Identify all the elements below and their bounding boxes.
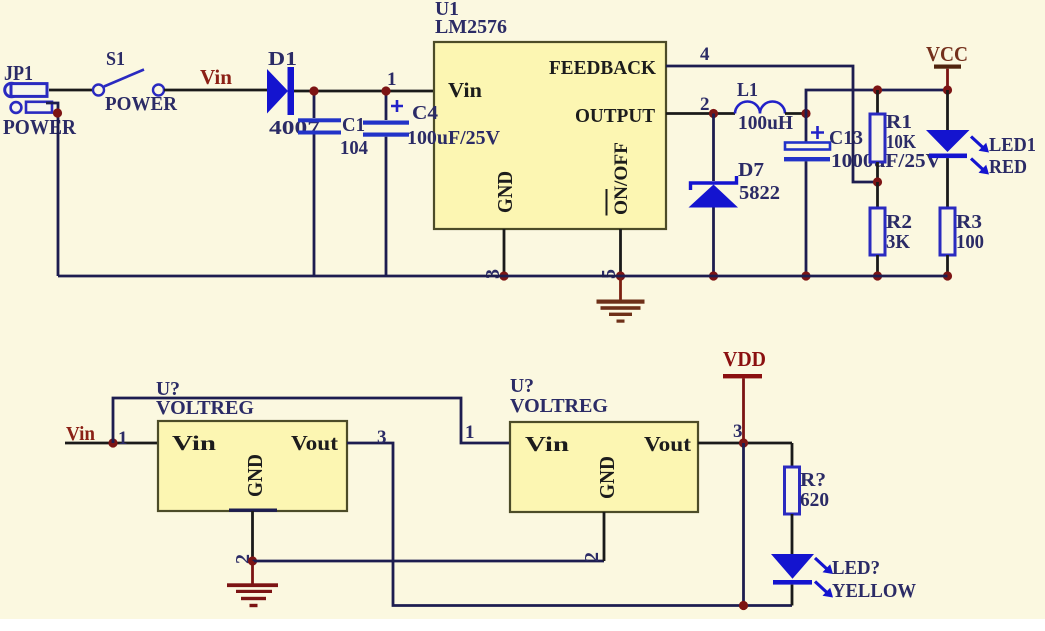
wire D1 to U1 Vin	[294, 90, 434, 93]
wire bypass loop over box1	[113, 398, 510, 443]
svg-text:POWER: POWER	[3, 115, 77, 139]
svg-text:1: 1	[387, 69, 397, 90]
svg-text:VCC: VCC	[926, 42, 968, 66]
capacitor C13 1000uF/25V	[784, 114, 942, 277]
svg-text:Vin: Vin	[172, 431, 216, 455]
regulator U? VOLTREG box2	[510, 375, 698, 512]
capacitor C4 100uF/25V	[363, 91, 501, 276]
svg-text:L1: L1	[737, 79, 758, 101]
wire box1 Vout pin 3	[347, 443, 792, 606]
svg-text:D7: D7	[738, 159, 764, 181]
svg-text:2: 2	[581, 552, 603, 562]
svg-text:OUTPUT: OUTPUT	[575, 105, 656, 127]
svg-text:JP1: JP1	[4, 61, 33, 85]
junction C13 on rail	[801, 271, 810, 280]
wire JP1 pin1 to S1	[49, 89, 93, 92]
wire S1 to D1	[164, 89, 267, 92]
wire L1 to C13 node	[785, 112, 806, 115]
junction Vin node	[108, 438, 117, 447]
regulator U? VOLTREG box1	[156, 378, 347, 512]
svg-text:VOLTREG: VOLTREG	[510, 395, 608, 417]
svg-text:1: 1	[118, 428, 128, 449]
junction R1/R2/feedback	[873, 177, 882, 186]
wire box1 GND pin 2	[251, 511, 254, 561]
junction C4 top	[381, 86, 390, 95]
svg-text:LED?: LED?	[832, 557, 880, 579]
wire GND interconnect	[253, 560, 605, 563]
LED LED1 RED	[926, 90, 1036, 208]
svg-text:LED1: LED1	[989, 134, 1036, 156]
diode D1 4007	[267, 48, 320, 139]
svg-text:C1: C1	[342, 114, 365, 136]
svg-text:2: 2	[700, 94, 710, 115]
svg-text:R2: R2	[886, 211, 912, 233]
junction D7 on rail	[709, 271, 718, 280]
svg-text:R3: R3	[956, 211, 982, 233]
svg-text:100uF/25V: 100uF/25V	[407, 127, 501, 149]
svg-text:3: 3	[377, 427, 387, 448]
diode D7 5822	[689, 114, 781, 277]
svg-text:R1: R1	[886, 111, 912, 133]
junction U1 GND on rail	[499, 271, 508, 280]
svg-text:ON/OFF: ON/OFF	[611, 142, 632, 215]
svg-text:1: 1	[465, 422, 475, 443]
svg-text:4: 4	[700, 44, 710, 65]
switch S1	[93, 48, 178, 115]
ground symbol bottom circuit	[227, 561, 278, 607]
wire OUTPUT pin 2	[666, 112, 735, 115]
svg-text:100: 100	[956, 231, 984, 253]
capacitor C1 104	[298, 91, 368, 276]
svg-text:U?: U?	[510, 375, 534, 397]
wire FEEDBACK pin 4	[666, 66, 877, 182]
wire U1 GND pin 3 to rail	[503, 229, 506, 276]
junction GND node	[248, 556, 257, 565]
svg-text:VDD: VDD	[723, 347, 766, 371]
junction VCC on rail	[943, 85, 952, 94]
junction R1 top	[873, 85, 882, 94]
wire Vin stub	[65, 442, 158, 445]
svg-text:Vout: Vout	[644, 432, 691, 456]
svg-text:VOLTREG: VOLTREG	[156, 397, 254, 419]
power VCC	[926, 42, 968, 88]
svg-text:S1: S1	[106, 48, 125, 70]
wire box2 Vout pin 3	[698, 442, 792, 445]
svg-text:104: 104	[340, 137, 368, 159]
bottom rail of top circuit	[58, 275, 948, 278]
junction C1 top	[309, 86, 318, 95]
junction ON/OFF on rail	[616, 271, 625, 280]
svg-text:RED: RED	[989, 156, 1027, 178]
LED LED? YELLOW	[771, 554, 916, 606]
op-amp U1 LM2576 box	[434, 0, 666, 229]
bottom white strip	[0, 619, 1045, 631]
svg-text:3K: 3K	[886, 231, 910, 253]
resistor R2 3K	[870, 182, 912, 276]
svg-text:LM2576: LM2576	[435, 16, 507, 38]
svg-text:Vin: Vin	[200, 65, 232, 89]
wire riser to top rail	[806, 90, 948, 114]
resistor R3 100	[940, 208, 984, 276]
inductor L1 100uH	[735, 79, 793, 134]
svg-text:C13: C13	[829, 127, 863, 149]
svg-text:100uH: 100uH	[738, 112, 793, 134]
junction at JP1 pin2	[53, 108, 62, 117]
svg-text:10K: 10K	[886, 131, 916, 153]
svg-text:GND: GND	[243, 454, 267, 497]
ground symbol below ON/OFF	[597, 276, 645, 323]
resistor R1 10K	[870, 90, 916, 182]
junction VDD on bottom rail	[739, 601, 748, 610]
power VDD	[723, 347, 766, 443]
svg-text:D1: D1	[268, 48, 297, 70]
svg-text:3: 3	[733, 421, 743, 442]
junction R3 on rail	[943, 271, 952, 280]
junction R2 on rail	[873, 271, 882, 280]
connector JP1	[3, 61, 77, 139]
svg-text:YELLOW: YELLOW	[832, 580, 916, 602]
junction OUTPUT / D7	[709, 109, 718, 118]
svg-text:R?: R?	[800, 469, 826, 491]
svg-text:Vin: Vin	[525, 432, 569, 456]
svg-text:POWER: POWER	[105, 93, 178, 115]
wire JP1 pin2 down to bottom rail	[46, 103, 58, 276]
wire box2 GND pin	[603, 512, 606, 561]
svg-text:Vin: Vin	[448, 78, 482, 102]
svg-text:620: 620	[800, 489, 829, 511]
svg-text:C4: C4	[412, 102, 438, 124]
resistor R? 620	[785, 443, 830, 554]
wire U1 ON/OFF pin 5 to rail	[619, 229, 622, 276]
wire VDD column down	[742, 443, 745, 606]
svg-text:5822: 5822	[739, 182, 780, 204]
junction VDD / Vout	[739, 438, 748, 447]
junction L1/C13	[801, 109, 810, 118]
svg-text:GND: GND	[493, 171, 517, 213]
svg-text:Vout: Vout	[291, 431, 338, 455]
svg-text:FEEDBACK: FEEDBACK	[549, 57, 656, 79]
svg-text:GND: GND	[595, 456, 619, 499]
